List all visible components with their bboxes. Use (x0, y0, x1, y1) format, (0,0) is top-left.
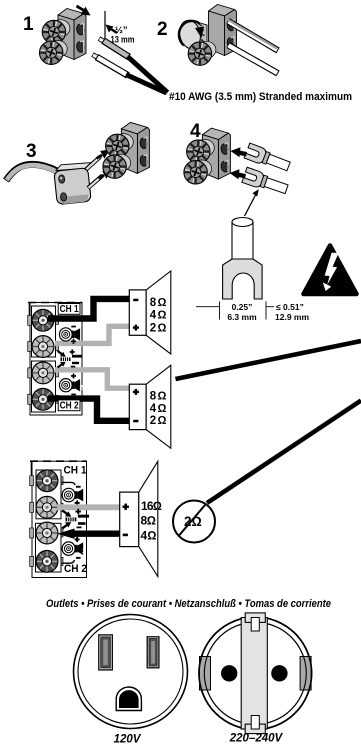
P1 knob 2 (32, 336, 54, 358)
P1 CH2 label (58, 400, 80, 411)
wire CH1 minus (black) (48, 299, 129, 319)
panel P2 corner mark (31, 461, 33, 475)
svg-text:#10 AWG (3.5 mm) Stranded maxi: #10 AWG (3.5 mm) Stranded maximum (169, 91, 352, 103)
connector J1 (58, 9, 86, 60)
connector J2 (209, 5, 237, 56)
no 2 ohm slash (179, 504, 206, 535)
panel P1 dashed top edge (28, 302, 82, 304)
P2 side tabs (30, 476, 63, 567)
strip arrow (106, 25, 118, 34)
panel P1 outline (30, 303, 82, 416)
top tab (245, 613, 265, 623)
P1 terminal strip CH1 (32, 306, 56, 357)
P1 knob 4 (32, 388, 54, 410)
outlet 120V (74, 615, 188, 729)
svg-text:2: 2 (80, 384, 84, 391)
SP3 cone (139, 461, 158, 576)
plug pin upper (86, 157, 101, 170)
SP3 minus (123, 534, 128, 537)
P2 knob 2 (36, 496, 58, 518)
svg-text:CH 1: CH 1 (64, 465, 87, 477)
SP2 plus (133, 389, 139, 395)
P2 terminal strip CH1 (36, 470, 61, 519)
SP2 minus (133, 420, 138, 423)
svg-text:3: 3 (26, 141, 37, 162)
panel P1 corner mark (29, 302, 31, 316)
svg-text:220–240V: 220–240V (229, 733, 284, 745)
strip gauge line (104, 11, 106, 40)
P1 icon group 2 (60, 379, 81, 392)
svg-text:8Ω: 8Ω (150, 297, 167, 309)
panel P2 outline (32, 461, 87, 577)
no 2 ohm circle (173, 501, 215, 543)
warning triangle (304, 246, 357, 295)
cable into plug (6, 164, 57, 180)
svg-text:4: 4 (190, 121, 201, 142)
P1 bridge icon (58, 349, 83, 367)
dimension lines (196, 302, 274, 320)
pin hole left (221, 665, 237, 681)
SP3 plus (123, 504, 129, 510)
P1 CH1 label (58, 304, 80, 315)
P1 knob 1 (32, 309, 54, 331)
P1 side tabs (28, 315, 59, 404)
wire W4 into J2 (228, 45, 278, 74)
J4 knob lower (184, 160, 212, 184)
P2 bracket top (62, 482, 76, 485)
insert arrow upper J4 (231, 147, 247, 157)
P1 terminal strip CH2 (32, 361, 56, 412)
J3 knob lower (103, 154, 131, 178)
leader line from lug detail (245, 195, 256, 216)
P2 terminal strip CH2 (36, 523, 62, 572)
svg-text:4Ω: 4Ω (150, 403, 167, 415)
J2 knob lower (188, 41, 216, 65)
svg-text:0.25”: 0.25” (232, 302, 253, 312)
speaker SP2 box (129, 384, 146, 429)
svg-text:2Ω: 2Ω (150, 415, 167, 427)
speaker SP3 box (120, 492, 139, 546)
svg-text:2: 2 (157, 19, 168, 40)
spade lug upper (244, 143, 291, 174)
ground hole (116, 687, 141, 711)
svg-text:8Ω: 8Ω (141, 514, 157, 528)
bottom tab (245, 724, 265, 734)
svg-text:16Ω: 16Ω (141, 499, 162, 513)
ring overstrokes (199, 617, 312, 730)
svg-text:≤ 0.51”: ≤ 0.51” (276, 302, 304, 312)
insert arrow lower J3 (99, 170, 112, 179)
SP1 cone (146, 271, 171, 354)
connector J4 (202, 128, 230, 179)
P2 knob 4 (36, 551, 58, 573)
speaker SP1 box (129, 290, 146, 335)
plug pin lower (88, 176, 103, 189)
SP1 plus (133, 325, 139, 331)
svg-text:CH 2: CH 2 (60, 400, 79, 412)
black bridge wire with arrow (72, 531, 120, 537)
spade lug lower (242, 167, 289, 197)
svg-text:CH 1: CH 1 (60, 303, 79, 315)
svg-text:2: 2 (82, 548, 86, 555)
wire CH2 plus (gray) (55, 370, 129, 388)
svg-text:6.3 mm: 6.3 mm (227, 312, 257, 322)
insert arrow lower J4 (230, 169, 246, 179)
J4 knob upper (187, 139, 215, 163)
SP2 cone (146, 365, 171, 448)
svg-text:4Ω: 4Ω (141, 528, 157, 542)
svg-text:1: 1 (23, 14, 34, 35)
P2 knob 1 (36, 470, 58, 492)
J1 knob lower (40, 40, 68, 64)
panel P2 dashed top edge (30, 460, 87, 462)
P2 icon group 2 (75, 537, 80, 542)
gray bridge wire (57, 504, 120, 510)
wire W2 stripped end (93, 55, 129, 76)
leader line A (176, 341, 361, 379)
side recess left (200, 657, 211, 691)
rotation arrow on J2 knob (179, 21, 204, 46)
svg-text:8Ω: 8Ω (150, 391, 167, 403)
svg-text:120V: 120V (114, 734, 142, 746)
J1 knob upper (42, 20, 70, 44)
svg-text:CH 2: CH 2 (64, 563, 87, 575)
P2 bridge icon (62, 509, 89, 529)
center band (241, 618, 267, 730)
banana plug body (54, 163, 92, 205)
outlet 220-240V (199, 613, 312, 734)
wire W2 insulation (126, 75, 167, 94)
insert arrow (77, 6, 91, 16)
J3 knob upper (106, 134, 134, 158)
connector J3 (121, 122, 149, 173)
lug detail barrel (232, 218, 253, 260)
P2 knob 3 (36, 522, 58, 544)
svg-text:12.9 mm: 12.9 mm (275, 312, 309, 322)
SP1 minus (133, 299, 138, 302)
wire CH2 minus (black) (48, 399, 129, 421)
wire CH1 plus (gray) (55, 326, 129, 343)
svg-text:Outlets • Prises de courant •: Outlets • Prises de courant • Netzanschl… (46, 598, 331, 610)
wire W3 into J2 (228, 20, 278, 51)
lug detail fork (223, 259, 263, 299)
wire W1 insulation (128, 57, 168, 93)
svg-text:2Ω: 2Ω (150, 323, 167, 335)
P2 icon group 1 (76, 486, 81, 488)
insert arrow upper J3 (97, 150, 110, 159)
P1 icon group 1 (60, 328, 81, 341)
J2 knob being turned (177, 18, 207, 50)
neutral slot (99, 635, 113, 670)
P2 bracket bottom (62, 560, 75, 563)
side recess right (300, 657, 311, 691)
svg-text:2Ω: 2Ω (184, 514, 202, 529)
hot slot (147, 637, 159, 668)
pin hole right (271, 665, 287, 681)
svg-text:4Ω: 4Ω (150, 309, 167, 321)
leader line B (207, 401, 361, 504)
wire W1 stripped end (99, 39, 129, 58)
P1 knob 3 (32, 362, 54, 384)
